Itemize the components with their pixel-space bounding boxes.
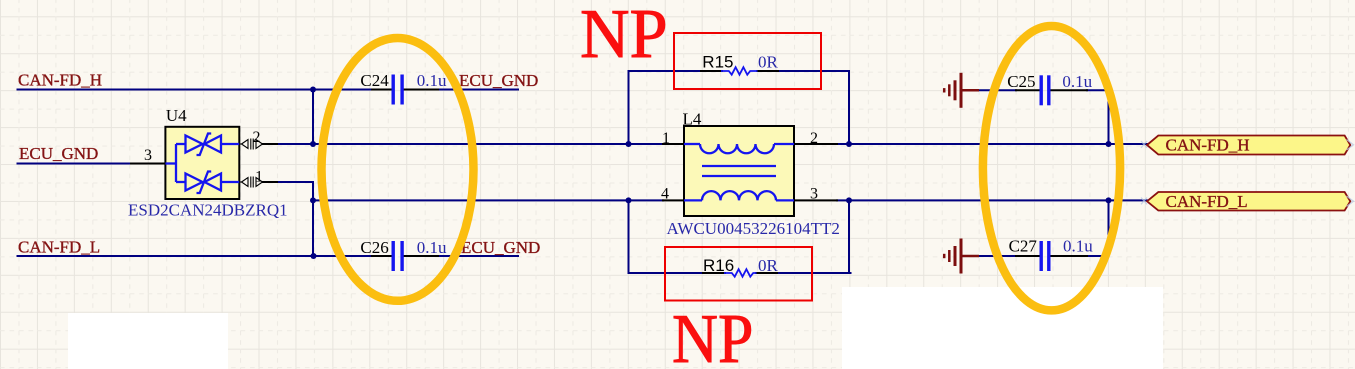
svg-text:U4: U4 [166, 106, 187, 125]
svg-text:0.1u: 0.1u [1062, 72, 1092, 91]
svg-text:ECU_GND: ECU_GND [461, 238, 540, 257]
svg-text:C26: C26 [360, 238, 388, 257]
svg-text:C27: C27 [1009, 237, 1038, 256]
svg-text:CAN-FD_L: CAN-FD_L [18, 238, 100, 257]
svg-text:0R: 0R [758, 52, 779, 71]
svg-text:CAN-FD_L: CAN-FD_L [1166, 192, 1248, 211]
svg-text:R16: R16 [703, 256, 734, 275]
svg-text:0.1u: 0.1u [1063, 237, 1093, 256]
svg-text:3: 3 [810, 186, 818, 203]
svg-text:ECU_GND: ECU_GND [459, 71, 538, 90]
svg-text:NP: NP [580, 0, 668, 72]
svg-text:0R: 0R [758, 256, 779, 275]
svg-text:4: 4 [661, 186, 669, 203]
svg-text:1: 1 [662, 130, 670, 147]
svg-text:CAN-FD_H: CAN-FD_H [1166, 136, 1250, 155]
svg-text:1: 1 [255, 169, 263, 186]
svg-text:ECU_GND: ECU_GND [19, 144, 98, 163]
svg-text:C24: C24 [360, 71, 389, 90]
svg-text:0.1u: 0.1u [417, 238, 447, 257]
svg-text:3: 3 [144, 147, 152, 164]
svg-text:2: 2 [810, 130, 818, 147]
svg-text:L4: L4 [683, 110, 702, 129]
svg-text:0.1u: 0.1u [417, 71, 447, 90]
svg-text:C25: C25 [1007, 72, 1035, 91]
svg-text:R15: R15 [702, 52, 733, 71]
svg-text:2: 2 [253, 129, 261, 146]
svg-text:CAN-FD_H: CAN-FD_H [18, 71, 102, 90]
svg-text:NP: NP [672, 300, 753, 369]
svg-text:AWCU00453226104TT2: AWCU00453226104TT2 [667, 219, 840, 238]
svg-text:ESD2CAN24DBZRQ1: ESD2CAN24DBZRQ1 [128, 201, 288, 220]
